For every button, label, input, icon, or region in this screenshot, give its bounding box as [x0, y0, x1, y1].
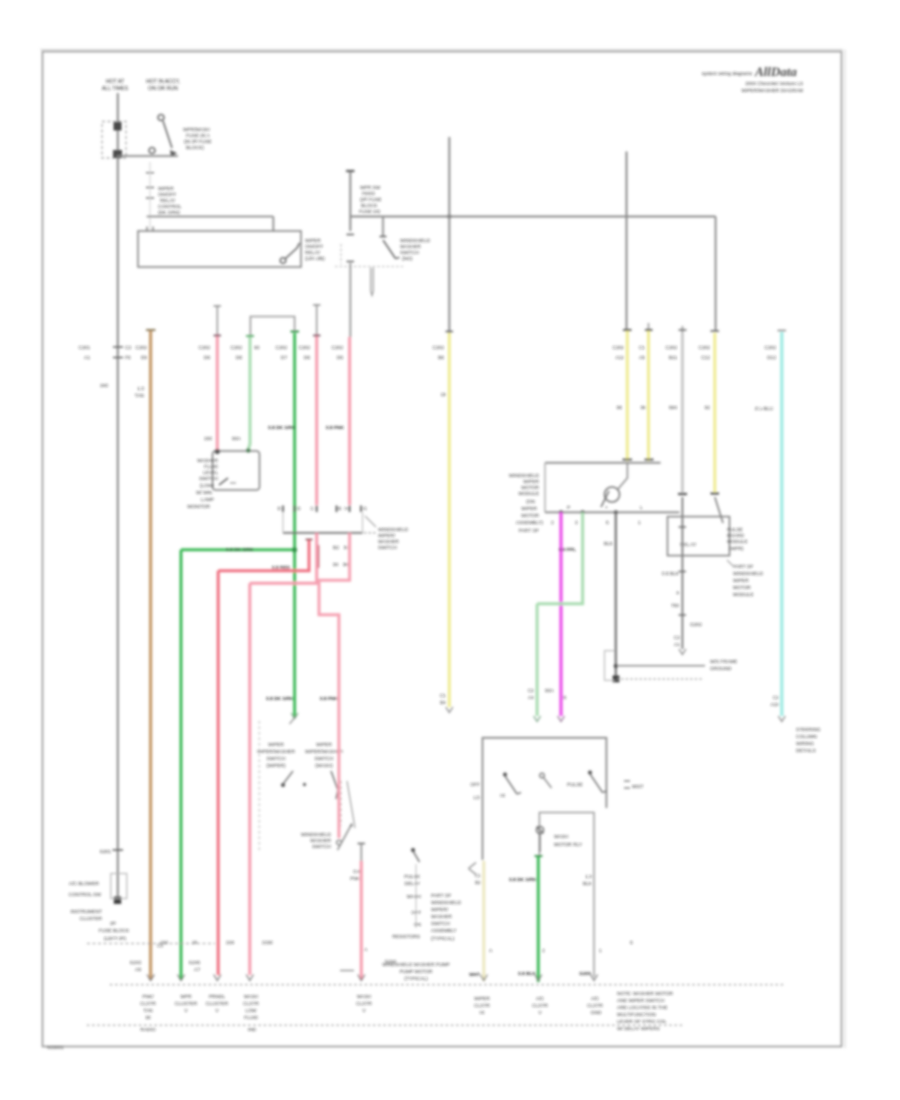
- wire yellow x449: [448, 333, 451, 707]
- bottom legend block: [617, 991, 674, 1032]
- lever mechanical diagonal: [347, 781, 355, 828]
- wire fuse output horizontal y156: [117, 155, 178, 157]
- wire light green x250: [248, 337, 250, 449]
- label HOT IN ACCY OR RUN: [146, 79, 180, 92]
- dark red stub: [316, 545, 320, 568]
- svg-text:2150: 2150: [262, 940, 273, 946]
- svg-text:SWITCH: SWITCH: [400, 250, 419, 256]
- page number label: [47, 1045, 64, 1051]
- dashed boundary: [87, 943, 215, 945]
- svg-text:PART OF: PART OF: [431, 893, 451, 899]
- svg-text:PNK: PNK: [350, 876, 361, 882]
- svg-text:D6: D6: [304, 355, 310, 361]
- svg-text:WINDSHIELD WASHER PUMP: WINDSHIELD WASHER PUMP: [382, 962, 450, 968]
- bottom label col pink2: [243, 994, 259, 1033]
- svg-text:TAN: TAN: [143, 1008, 153, 1014]
- svg-text:A5: A5: [639, 355, 645, 361]
- wiper motor top line y463: [545, 462, 661, 464]
- svg-text:W/ MIN: W/ MIN: [196, 490, 213, 496]
- svg-text:CLUSTER: CLUSTER: [80, 916, 103, 922]
- svg-text:D9: D9: [204, 355, 210, 361]
- connector square top: [114, 122, 122, 131]
- yellow switch arm: [711, 492, 720, 494]
- svg-text:PART OF: PART OF: [733, 564, 753, 570]
- svg-text:H: H: [345, 506, 349, 512]
- label steering column right: [796, 727, 821, 754]
- svg-text:MOTOR: MOTOR: [733, 585, 751, 591]
- fuse block dashed box: [102, 122, 126, 159]
- bottom label col green2: [532, 996, 548, 1016]
- washer pump arrow stub: [371, 268, 374, 296]
- svg-text:S243: S243: [130, 960, 142, 966]
- wire yellow x627: [626, 331, 629, 461]
- label washer fuse block: [359, 185, 382, 215]
- splice dots: [614, 664, 618, 668]
- svg-text:C202: C202: [765, 345, 777, 351]
- svg-text:B11: B11: [669, 355, 678, 361]
- svg-text:B4: B4: [440, 700, 446, 706]
- red wire path: [218, 540, 309, 975]
- labels on x682 lower: [662, 571, 702, 648]
- label module annotation: [727, 560, 733, 566]
- wire gray x615 park: [615, 512, 617, 679]
- label ground: [710, 659, 737, 672]
- svg-text:RADIO: RADIO: [140, 1027, 155, 1033]
- svg-text:A9: A9: [135, 967, 141, 973]
- svg-text:ON/OFF: ON/OFF: [305, 244, 323, 250]
- svg-text:RESISTORS: RESISTORS: [392, 934, 420, 940]
- wire pink x316: [316, 305, 318, 334]
- svg-text:BLOCK: BLOCK: [361, 203, 378, 209]
- svg-text:D5: D5: [337, 355, 343, 361]
- switch left: [503, 773, 507, 777]
- svg-text:CLSTR: CLSTR: [140, 1001, 156, 1007]
- svg-text:WASHER: WASHER: [197, 458, 218, 464]
- svg-text:STEERING: STEERING: [796, 727, 821, 733]
- svg-text:2: 2: [551, 520, 554, 526]
- svg-text:0.8 PPL: 0.8 PPL: [559, 547, 576, 553]
- svg-text:PULSE: PULSE: [567, 782, 583, 788]
- wire ignition vertical x449 gray: [448, 137, 450, 333]
- svg-text:MODULE: MODULE: [733, 592, 754, 598]
- svg-text:WIPER/WASHER: WIPER/WASHER: [257, 749, 295, 755]
- wire long horizontal y216.5 to x715: [350, 217, 715, 333]
- svg-text:0.8 DK GRN: 0.8 DK GRN: [268, 425, 295, 431]
- svg-text:WIPER: WIPER: [733, 578, 749, 584]
- washer switch feed wire x350: [349, 172, 351, 232]
- wire pink x361 lower: [360, 844, 362, 861]
- svg-text:WIPER: WIPER: [305, 238, 321, 244]
- svg-text:BLOCK): BLOCK): [186, 145, 204, 151]
- svg-text:SWITCH: SWITCH: [267, 756, 286, 762]
- switch right: [588, 771, 592, 775]
- svg-text:A1: A1: [84, 355, 90, 361]
- svg-text:WIPER/: WIPER/: [378, 533, 396, 539]
- svg-text:A1: A1: [674, 642, 680, 648]
- labels instrument cluster: [69, 881, 103, 922]
- label WPR FUSE 25A: [183, 127, 212, 151]
- svg-text:(DK GRN): (DK GRN): [158, 210, 180, 216]
- washer switch lower contact: [337, 840, 342, 845]
- svg-text:CLUSTER: CLUSTER: [175, 1001, 198, 1007]
- svg-text:1.0: 1.0: [585, 874, 592, 880]
- svg-text:WINDSHIELD: WINDSHIELD: [733, 571, 764, 577]
- svg-text:FEED: FEED: [362, 191, 375, 197]
- bottom label col paleyellow: [474, 996, 490, 1016]
- ticks on x682: [679, 527, 687, 615]
- svg-text:B: B: [338, 506, 341, 512]
- svg-text:(WPR): (WPR): [729, 546, 744, 552]
- svg-text:D7: D7: [281, 355, 287, 361]
- wire run feed vertical x626: [626, 152, 628, 331]
- svg-text:LOW: LOW: [246, 1008, 257, 1014]
- svg-text:MODULE: MODULE: [727, 539, 748, 545]
- wire yellow x648: [648, 323, 650, 331]
- svg-text:RELAY: RELAY: [160, 198, 176, 204]
- bottom connector dotted row 2: [87, 1024, 683, 1026]
- title block: [702, 64, 803, 94]
- wire green x538 bottom: [537, 857, 540, 982]
- svg-text:ALL TIMES: ALL TIMES: [102, 86, 129, 92]
- svg-text:WPR/WASH: WPR/WASH: [183, 127, 210, 133]
- v-end cyan: [778, 716, 785, 722]
- bottom outer bracket box: [483, 738, 607, 860]
- svg-text:G202: G202: [690, 622, 702, 628]
- tan labels: [130, 345, 148, 973]
- green wire horizontal y549: [181, 548, 295, 551]
- svg-text:5: 5: [606, 520, 609, 526]
- svg-text:93A: 93A: [545, 688, 554, 694]
- connector labels x449: [433, 345, 447, 706]
- svg-text:WIPER: WIPER: [523, 479, 539, 485]
- v-end green 294: [291, 713, 298, 719]
- svg-text:0.8 DK GRN: 0.8 DK GRN: [226, 547, 253, 553]
- svg-text:.5 L-BLU: .5 L-BLU: [754, 406, 773, 412]
- svg-text:C202: C202: [199, 345, 211, 351]
- wiper switch block body: [283, 512, 363, 533]
- connector square bottom: [113, 150, 122, 158]
- svg-text:BLK: BLK: [583, 881, 593, 887]
- svg-text:30: 30: [145, 1015, 151, 1021]
- svg-text:WASH: WASH: [407, 894, 422, 900]
- label relay coil: [158, 186, 182, 216]
- svg-text:D8: D8: [236, 355, 242, 361]
- washer switch arm: [383, 240, 400, 259]
- W1 inline connector ticks: [113, 347, 123, 358]
- svg-text:96: 96: [343, 562, 349, 568]
- svg-text:C1: C1: [475, 873, 481, 879]
- svg-text:C202: C202: [332, 345, 344, 351]
- svg-text:C202: C202: [699, 345, 711, 351]
- wiper motor left edge: [544, 463, 546, 513]
- svg-text:LEVER OF STRG COL: LEVER OF STRG COL: [617, 1019, 667, 1025]
- svg-text:A12: A12: [615, 355, 624, 361]
- svg-text:0.8 BLK: 0.8 BLK: [518, 971, 536, 977]
- svg-text:DETAILS: DETAILS: [796, 748, 816, 754]
- label WIPER RELAY: [305, 238, 325, 262]
- bottom label col green: [175, 994, 198, 1014]
- svg-text:WIPER: WIPER: [521, 506, 537, 512]
- labels above wiper switch pins: [204, 425, 345, 442]
- svg-text:W/S FRAME: W/S FRAME: [710, 659, 737, 665]
- svg-text:ASSEMBLY): ASSEMBLY): [516, 520, 544, 526]
- svg-text:FUSE 24): FUSE 24): [359, 209, 380, 215]
- left edge pin label: [470, 782, 480, 801]
- bottom tick labels: [160, 940, 633, 946]
- svg-text:WINDSHIELD: WINDSHIELD: [400, 238, 431, 244]
- wiper relay box: [668, 517, 730, 556]
- svg-text:DELAY: DELAY: [405, 881, 421, 887]
- svg-text:MIST: MIST: [632, 784, 644, 790]
- washer switch dashed enclosure: [335, 244, 403, 267]
- svg-text:MULTIFUNCTION: MULTIFUNCTION: [617, 1012, 656, 1018]
- svg-text:WIPER/: WIPER/: [431, 907, 449, 913]
- svg-text:96: 96: [641, 405, 647, 411]
- junction dot x449: [447, 214, 451, 218]
- svg-text:PRNDL: PRNDL: [209, 994, 226, 1000]
- svg-text:340: 340: [100, 383, 108, 389]
- svg-text:C202: C202: [231, 345, 243, 351]
- svg-text:SWITCH: SWITCH: [312, 844, 331, 850]
- svg-text:WIPER/WASHER DIAGRAM: WIPER/WASHER DIAGRAM: [741, 88, 803, 94]
- svg-text:PART OF: PART OF: [519, 528, 539, 534]
- svg-text:E: E: [278, 506, 281, 512]
- svg-text:WIRING: WIRING: [796, 741, 814, 747]
- svg-text:229: 229: [226, 940, 234, 946]
- inner box wash motor: [539, 813, 594, 978]
- v-end yellow 449: [446, 707, 453, 713]
- svg-text:LEVEL: LEVEL: [203, 470, 218, 476]
- ground splice square: [114, 897, 121, 904]
- svg-text:CLSTR: CLSTR: [587, 1003, 603, 1009]
- pink wire P1: [250, 533, 317, 975]
- svg-text:MONITOR: MONITOR: [187, 504, 210, 510]
- svg-text:A/C BLOWER: A/C BLOWER: [69, 881, 100, 887]
- fuse F1 symbol: [149, 115, 172, 154]
- bottom connector dotted row 1: [110, 984, 785, 986]
- svg-text:MOTOR: MOTOR: [521, 513, 539, 519]
- svg-text:C1: C1: [639, 345, 645, 351]
- wire magenta x561: [559, 512, 562, 716]
- svg-text:C202: C202: [613, 345, 625, 351]
- svg-text:(NO): (NO): [402, 256, 413, 262]
- ground line: [617, 665, 705, 667]
- svg-text:C201: C201: [79, 345, 91, 351]
- wire W1 battery feed vertical x118: [117, 93, 119, 900]
- svg-text:S245: S245: [189, 960, 201, 966]
- svg-text:B6: B6: [438, 355, 444, 361]
- svg-text:(LEFT I/P): (LEFT I/P): [104, 936, 126, 942]
- svg-text:N33001: N33001: [47, 1045, 64, 1051]
- svg-text:ON: ON: [414, 922, 422, 928]
- svg-text:G: G: [363, 506, 367, 512]
- washer pump switch chain x415: [413, 851, 420, 862]
- wire light green jog x582-537: [537, 512, 583, 716]
- svg-text:A7: A7: [194, 967, 200, 973]
- svg-text:CONTROL: CONTROL: [158, 204, 182, 210]
- svg-text:ON OR RUN: ON OR RUN: [148, 86, 178, 92]
- svg-text:RELAY: RELAY: [305, 250, 321, 256]
- IP fuse block pyramid: [99, 921, 130, 942]
- svg-text:E8: E8: [141, 355, 147, 361]
- svg-text:A10: A10: [770, 702, 779, 708]
- svg-text:P: P: [567, 505, 570, 511]
- svg-text:ARE LOCATED IN THE: ARE LOCATED IN THE: [617, 1005, 667, 1011]
- wiper switch annotation: [365, 516, 376, 527]
- gray bridge jog x250-295: [250, 317, 294, 338]
- svg-text:SWITCH: SWITCH: [315, 756, 334, 762]
- svg-text:a: a: [676, 591, 679, 596]
- svg-text:(U/H J/B): (U/H J/B): [305, 256, 325, 262]
- svg-text:IND: IND: [248, 1027, 257, 1033]
- connector cap: [346, 170, 355, 172]
- svg-text:WASHER: WASHER: [378, 539, 399, 545]
- svg-text:A/C: A/C: [591, 996, 600, 1002]
- cyan labels: [754, 345, 779, 708]
- svg-text:0.8 PNK: 0.8 PNK: [326, 425, 345, 431]
- svg-text:WIPER: WIPER: [268, 742, 284, 748]
- bottom label col pink3: [356, 994, 372, 1014]
- pink wire P2: [319, 533, 350, 838]
- wire pink x349 upper: [349, 263, 351, 337]
- svg-text:92: 92: [705, 405, 711, 411]
- wire relay feed horizontal y216.5: [147, 217, 274, 232]
- svg-text:I/P: I/P: [110, 921, 116, 927]
- svg-text:S201: S201: [100, 849, 112, 855]
- right edge labels: [579, 874, 602, 977]
- svg-text:NOTE: WASHER MOTOR: NOTE: WASHER MOTOR: [617, 991, 674, 997]
- svg-text:PNK/: PNK/: [142, 994, 154, 1000]
- svg-text:0.8 PNK: 0.8 PNK: [320, 696, 339, 702]
- svg-text:FUSE 25 A: FUSE 25 A: [186, 133, 211, 139]
- lever switch arm right: [331, 771, 338, 799]
- svg-text:B: B: [563, 695, 566, 701]
- svg-text:C2: C2: [674, 635, 680, 641]
- svg-text:WASHER: WASHER: [431, 914, 452, 920]
- multifunction lever dashed boundary left: [258, 721, 260, 850]
- svg-text:PUMP MOTOR: PUMP MOTOR: [400, 969, 433, 975]
- svg-text:WPR: WPR: [180, 994, 192, 1000]
- relay switch contact: [280, 243, 299, 263]
- relay R1 pin ticks x150: [146, 173, 154, 198]
- wiper switch label block right: [305, 742, 343, 769]
- relay box text: [680, 542, 697, 548]
- svg-text:CLSTR: CLSTR: [356, 1001, 372, 1007]
- wire pink x217: [216, 306, 218, 334]
- svg-text:HOT IN ACCY,: HOT IN ACCY,: [146, 79, 180, 85]
- switch mark inside: [219, 478, 228, 485]
- svg-text:WASH: WASH: [554, 834, 569, 840]
- svg-text:C202: C202: [276, 345, 288, 351]
- svg-text:HOT AT: HOT AT: [106, 79, 125, 85]
- svg-text:WHT: WHT: [469, 972, 480, 978]
- svg-text:1: 1: [638, 520, 641, 526]
- svg-text:WINDSHIELD: WINDSHIELD: [378, 527, 409, 533]
- svg-text:MOTOR: MOTOR: [521, 485, 539, 491]
- svg-text:WASHER: WASHER: [400, 244, 421, 250]
- svg-text:(TYPICAL): (TYPICAL): [431, 936, 455, 942]
- junction dots on motor bottom: [559, 510, 563, 514]
- svg-text:FUSE BLOCK: FUSE BLOCK: [99, 928, 130, 934]
- svg-text:LAMP: LAMP: [201, 497, 214, 503]
- fuse arrowhead: [170, 150, 177, 157]
- svg-text:L: L: [640, 505, 643, 511]
- green wire vertical x181: [180, 550, 183, 980]
- svg-text:B2: B2: [475, 880, 481, 886]
- label HOT AT ALL TIMES: [102, 79, 129, 92]
- svg-text:AND WIPER SWITCH: AND WIPER SWITCH: [617, 998, 665, 1004]
- svg-text:B2: B2: [333, 545, 339, 551]
- lever switch arm left: [281, 783, 285, 787]
- svg-text:SWITCH: SWITCH: [199, 476, 218, 482]
- svg-text:1: 1: [599, 948, 602, 954]
- svg-text:C2: C2: [528, 688, 534, 694]
- svg-text:CLSTR: CLSTR: [243, 1001, 259, 1007]
- svg-text:0.8 DK GRN: 0.8 DK GRN: [509, 877, 536, 883]
- svg-text:(IN I/P FUSE: (IN I/P FUSE: [184, 139, 212, 145]
- pin labels: [278, 506, 367, 512]
- svg-text:W/ DELAY WIPERS: W/ DELAY WIPERS: [617, 1026, 660, 1032]
- svg-text:FLUID: FLUID: [204, 464, 218, 470]
- svg-text:G200: G200: [579, 971, 591, 977]
- svg-text:CONTROL SW: CONTROL SW: [69, 892, 102, 898]
- svg-text:WASH: WASH: [244, 994, 259, 1000]
- motor pin labels: [551, 505, 643, 526]
- svg-text:C202: C202: [433, 345, 445, 351]
- park switch circle: [605, 487, 620, 502]
- svg-text:A/C: A/C: [536, 996, 545, 1002]
- svg-text:0.8: 0.8: [353, 869, 360, 875]
- svg-text:(I/P FUSE: (I/P FUSE: [360, 197, 382, 203]
- svg-text:BLK: BLK: [604, 541, 614, 547]
- svg-text:(ON: (ON: [526, 499, 535, 505]
- svg-text:ON/OFF: ON/OFF: [158, 192, 176, 198]
- svg-text:OFF: OFF: [411, 910, 421, 916]
- svg-text:93A: 93A: [232, 436, 241, 442]
- svg-text:OFF: OFF: [470, 782, 480, 788]
- label washer pump block: [431, 893, 462, 942]
- wire green x294: [293, 333, 296, 718]
- svg-text:(TYPICAL): (TYPICAL): [404, 976, 428, 982]
- wire cyan x782: [780, 332, 783, 716]
- svg-text:HI: HI: [480, 1010, 485, 1016]
- svg-text:CLSTR: CLSTR: [474, 1003, 490, 1009]
- svg-text:93: 93: [254, 345, 260, 351]
- svg-text:WIPER: WIPER: [158, 186, 174, 192]
- bottom label col pink1: [206, 994, 229, 1014]
- svg-text:LO: LO: [474, 795, 481, 801]
- wire yellow x715: [713, 333, 716, 492]
- svg-text:0.8 DK GRN: 0.8 DK GRN: [266, 696, 293, 702]
- svg-text:0.8 RED: 0.8 RED: [272, 565, 291, 571]
- svg-text:WASH: WASH: [357, 994, 372, 1000]
- svg-text:29: 29: [192, 940, 198, 946]
- bottom-left splice tick: [113, 849, 124, 851]
- svg-text:COLUMN: COLUMN: [796, 734, 817, 740]
- wiper switch block pin ticks: [283, 506, 361, 513]
- motor symbol: [536, 826, 543, 833]
- svg-text:WPR SW: WPR SW: [360, 185, 381, 191]
- svg-text:INSTRUMENT: INSTRUMENT: [71, 909, 103, 915]
- switch mid contact: [540, 773, 545, 778]
- pink terminal dot: [215, 449, 220, 454]
- svg-text:PULSE: PULSE: [404, 874, 420, 880]
- svg-text:2004 Chevrolet Venture LS: 2004 Chevrolet Venture LS: [745, 81, 803, 87]
- svg-text:F6: F6: [125, 355, 131, 361]
- svg-text:C202: C202: [299, 345, 311, 351]
- wire pale yellow x484: [469, 863, 477, 875]
- svg-text:WINDSHIELD: WINDSHIELD: [431, 900, 462, 906]
